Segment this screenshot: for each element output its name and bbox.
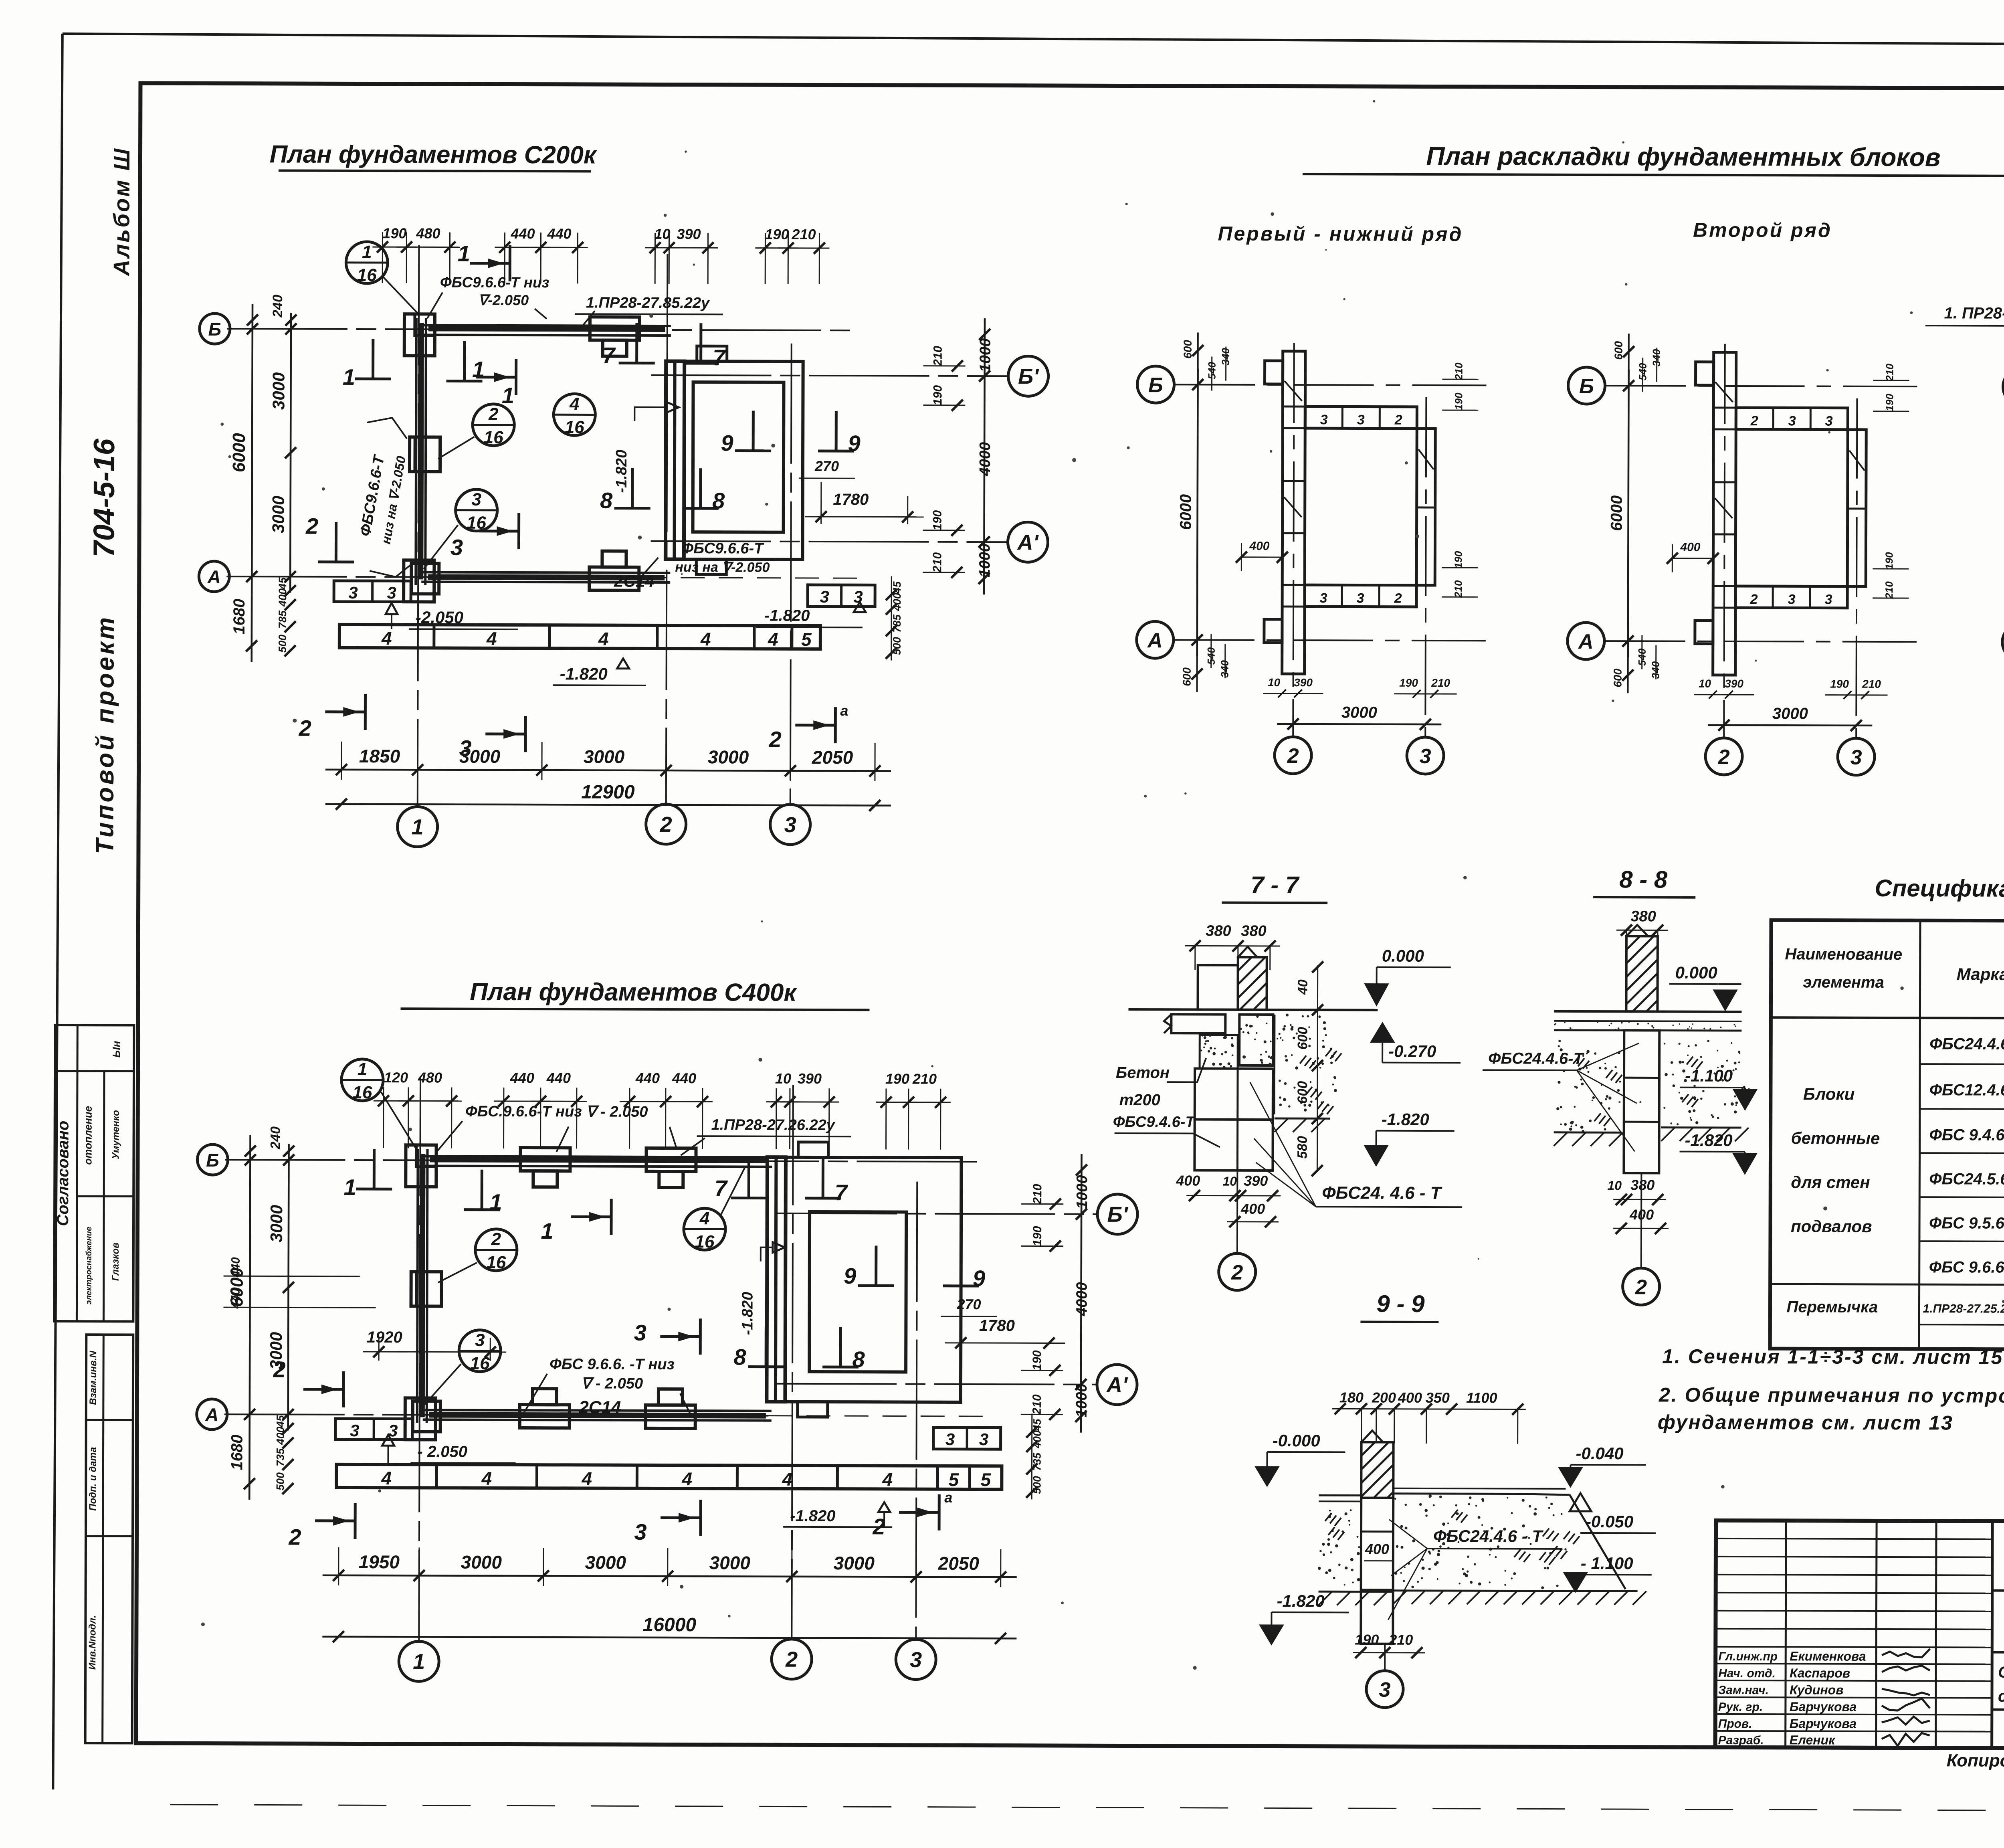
layout2 right small dims	[1873, 364, 1909, 599]
svg-text:600: 600	[1612, 341, 1625, 360]
layout2 dim 3000	[1708, 705, 1872, 731]
svg-text:-1.820: -1.820	[1685, 1131, 1733, 1150]
section 9-9 wall column	[1361, 1498, 1393, 1644]
plan1 bottom section flags	[298, 694, 848, 762]
layout1 dim chain 6000	[1177, 332, 1232, 692]
plan1 section flag 3 mid	[450, 513, 519, 560]
svg-text:3: 3	[1320, 412, 1328, 427]
plan2 level mark -1.820 right	[783, 1502, 892, 1527]
section 7-7 level -0.270	[1372, 1024, 1461, 1063]
plan1 level mark -1.820 bottom	[553, 658, 646, 685]
svg-text:190: 190	[885, 1070, 909, 1087]
svg-text:Бетон: Бетон	[1116, 1064, 1170, 1082]
plan1 wall along axis 1	[409, 318, 440, 594]
svg-text:ФБС24.4.6-Т: ФБС24.4.6-Т	[1488, 1049, 1585, 1068]
svg-text:9: 9	[973, 1266, 985, 1291]
svg-text:1: 1	[344, 1175, 356, 1200]
title block object name	[1998, 1664, 2004, 1706]
section 8-8 brick pier hatched	[1626, 925, 1658, 1011]
plan1 label ФБС9.6.6-Т низ	[427, 274, 549, 319]
svg-text:400: 400	[277, 588, 289, 607]
svg-text:2: 2	[785, 1648, 798, 1672]
title: План фундаментов С400к	[400, 978, 869, 1010]
scan noise	[201, 97, 2004, 1673]
svg-text:5: 5	[949, 1469, 960, 1490]
svg-text:Перемычка: Перемычка	[1786, 1298, 1878, 1316]
plan1 dimension row top	[372, 225, 829, 284]
plan2 axis line Б	[225, 1160, 981, 1162]
svg-text:Блоки: Блоки	[1803, 1084, 1855, 1103]
svg-text:16: 16	[565, 417, 585, 437]
section 9-9 title	[1360, 1290, 1438, 1322]
plan2 section flags 8	[733, 1326, 865, 1372]
svg-text:Гл.инж.пр: Гл.инж.пр	[1718, 1650, 1778, 1663]
svg-text:1: 1	[458, 241, 470, 266]
svg-text:2: 2	[1718, 746, 1730, 769]
plan2 axis circle 3	[896, 1640, 936, 1680]
section 9-9 level -1.820	[1261, 1591, 1349, 1644]
section 9-9 bottom dims	[1353, 1631, 1425, 1658]
plan2 footing block strip	[336, 1464, 1002, 1490]
svg-text:3: 3	[634, 1519, 646, 1545]
plan1 blocks 3-3 right	[808, 585, 875, 607]
plan1 axis circle Б-prime	[1008, 356, 1048, 396]
layout1 corner blocks	[1264, 361, 1283, 643]
svg-text:ФБС9.6.6-Т низ: ФБС9.6.6-Т низ	[440, 274, 549, 291]
svg-text:3: 3	[1420, 745, 1431, 768]
svg-text:1100: 1100	[1466, 1389, 1497, 1406]
svg-text:ФБС 9.5.6-Т: ФБС 9.5.6-Т	[1929, 1214, 2004, 1232]
label ФБС9.4.6-Т near section 7-7	[1113, 1114, 1220, 1147]
svg-text:-1.820: -1.820	[560, 664, 608, 683]
svg-text:12900: 12900	[581, 781, 635, 803]
svg-text:Екименкова: Екименкова	[1790, 1649, 1866, 1663]
svg-text:190: 190	[931, 385, 944, 405]
svg-text:3: 3	[979, 1430, 988, 1449]
layout1 block row bottom	[1305, 585, 1416, 607]
svg-text:210: 210	[1883, 581, 1895, 599]
svg-text:3: 3	[820, 587, 829, 606]
svg-text:3000: 3000	[584, 746, 625, 767]
svg-text:440: 440	[229, 1288, 242, 1309]
layout2 block row top	[1736, 408, 1848, 430]
svg-text:ФБС12.4.6-Т: ФБС12.4.6-Т	[1929, 1081, 2004, 1099]
svg-text:3: 3	[1379, 1678, 1390, 1702]
svg-text:2050: 2050	[938, 1553, 980, 1574]
svg-text:Каспаров: Каспаров	[1790, 1666, 1850, 1680]
layout1 dims bottom small	[1263, 676, 1457, 698]
plan1 level mark -1.820 right	[756, 602, 866, 628]
svg-text:3000: 3000	[1341, 704, 1377, 721]
svg-text:Наименование: Наименование	[1785, 945, 1902, 963]
section 7-7 label ФБС24.4.6-Т	[1250, 1082, 1463, 1207]
layout2 axis circle 2	[1705, 738, 1742, 775]
section 9-9 level -0.000	[1256, 1431, 1345, 1486]
svg-text:3: 3	[784, 813, 796, 837]
svg-text:7 - 7: 7 - 7	[1250, 871, 1300, 898]
svg-text:210: 210	[1388, 1632, 1413, 1648]
layout2 dims bottom small	[1694, 677, 1887, 699]
svg-text:16: 16	[486, 1253, 506, 1272]
svg-text:Ын: Ын	[110, 1041, 122, 1057]
svg-text:4: 4	[569, 394, 580, 414]
svg-text:240: 240	[270, 295, 285, 318]
svg-text:отопление: отопление	[82, 1106, 94, 1165]
svg-text:3: 3	[350, 1421, 359, 1440]
svg-text:6000: 6000	[1177, 494, 1195, 530]
plan2 axis line 2 vertical	[792, 1085, 793, 1640]
svg-text:Марка: Марка	[1957, 964, 2004, 983]
plan2 section flag 2 left top	[273, 1357, 343, 1407]
svg-text:390: 390	[1725, 677, 1743, 690]
plan1 axis circle 1	[397, 807, 437, 847]
svg-text:190: 190	[1452, 551, 1464, 568]
svg-text:40: 40	[1295, 979, 1311, 995]
plan1 dimension chain left 3000/3000	[269, 295, 297, 657]
section 7-7 concrete pocket speckled	[1200, 1035, 1238, 1069]
plan2 blocks 3-3 left	[335, 1419, 412, 1440]
svg-text:ФБС 9.4.6-Т: ФБС 9.4.6-Т	[1929, 1126, 2004, 1144]
svg-text:440: 440	[635, 1070, 660, 1086]
plan2 axis line А-prime	[776, 1384, 1098, 1385]
svg-text:16: 16	[352, 1083, 372, 1102]
plan2 wall along axis Б	[406, 1145, 772, 1187]
plan2 keyplan circle 4/16	[684, 1166, 746, 1252]
svg-text:Рук. гр.: Рук. гр.	[1718, 1700, 1763, 1714]
svg-text:190: 190	[1883, 552, 1895, 570]
svg-text:600: 600	[1295, 1027, 1310, 1050]
plan2 axis circle А	[197, 1399, 227, 1429]
svg-text:1780: 1780	[833, 491, 869, 508]
svg-text:4: 4	[699, 1209, 710, 1228]
layout3 axis circle А	[2002, 624, 2004, 661]
svg-text:Б: Б	[1148, 374, 1163, 397]
svg-text:2050: 2050	[812, 747, 853, 768]
svg-text:Б': Б'	[1018, 364, 1039, 388]
svg-text:3000: 3000	[709, 1552, 751, 1573]
svg-text:2: 2	[273, 1357, 285, 1382]
svg-text:270: 270	[814, 458, 839, 474]
svg-text:390: 390	[798, 1070, 822, 1087]
plan1 axis circle Б	[200, 313, 230, 344]
margin caption: 704-5-16	[87, 438, 121, 557]
plan1 axis line 2 vertical	[666, 254, 668, 805]
svg-text:7: 7	[602, 343, 616, 368]
svg-text:ФБС24. 4.6 - Т: ФБС24. 4.6 - Т	[1322, 1183, 1442, 1203]
subtitle: Первый-нижний ряд	[1218, 222, 1463, 246]
section 7-7 left vertical dims	[1295, 961, 1323, 1176]
svg-text:16: 16	[357, 265, 377, 285]
plan2 overall dimension	[322, 1613, 1016, 1644]
svg-text:1: 1	[412, 815, 424, 839]
layout2 dim chain 6000	[1608, 334, 1663, 693]
section 8-8 title	[1593, 866, 1695, 898]
svg-text:3: 3	[1357, 412, 1365, 428]
plan2 wall along axis 1	[411, 1149, 442, 1431]
layout2 axis circle Б	[1568, 367, 1605, 404]
section 8-8 level -1.820	[1679, 1131, 1756, 1173]
margin stamp: Согласовано block	[54, 1025, 134, 1322]
svg-text:2: 2	[1635, 1276, 1647, 1299]
plan2 right dimension chain	[1021, 1154, 1091, 1432]
plan1 axis line А-prime	[650, 541, 1008, 542]
svg-text:Умутенко: Умутенко	[110, 1110, 121, 1159]
svg-text:2: 2	[299, 716, 311, 741]
subtitle: Второй ряд	[1693, 219, 1832, 242]
svg-text:-1.820: -1.820	[739, 1292, 756, 1335]
plan1 keyplan circle 3/16	[424, 489, 497, 569]
svg-text:1000: 1000	[1073, 1383, 1090, 1417]
svg-text:8: 8	[734, 1344, 747, 1369]
svg-text:Кудинов: Кудинов	[1790, 1682, 1844, 1697]
svg-text:1780: 1780	[979, 1317, 1015, 1334]
svg-text:0.000: 0.000	[1675, 963, 1717, 982]
svg-text:8: 8	[712, 488, 725, 513]
svg-text:4: 4	[882, 1469, 893, 1490]
layout1 block row top	[1305, 406, 1417, 429]
svg-text:Согласовано: Согласовано	[54, 1121, 72, 1226]
svg-text:со стенами из кирпича: со стенами из кирпича	[1998, 1688, 2004, 1706]
svg-text:3: 3	[1825, 592, 1832, 607]
svg-text:2С14: 2С14	[614, 572, 655, 590]
svg-text:440: 440	[510, 1070, 534, 1086]
svg-text:3: 3	[450, 535, 463, 560]
svg-text:440: 440	[229, 1257, 242, 1278]
svg-text:7: 7	[715, 1175, 728, 1201]
svg-text:4: 4	[782, 1469, 793, 1490]
section 8-8 label ФБС24.4.6-Т	[1483, 1043, 1639, 1151]
svg-text:2: 2	[660, 813, 672, 837]
section 9-9 dim 400	[1364, 1541, 1393, 1561]
section 7-7 level -1.820	[1365, 1110, 1454, 1165]
svg-text:390: 390	[1294, 676, 1313, 689]
section 9-9 top dims	[1332, 1389, 1526, 1444]
svg-text:380: 380	[1206, 923, 1231, 940]
svg-text:600: 600	[1612, 668, 1624, 687]
svg-text:т200: т200	[1119, 1091, 1160, 1109]
plan2 axis line Б-prime	[777, 1213, 1098, 1214]
layout1 right small dims	[1442, 362, 1479, 598]
svg-text:Б: Б	[1579, 375, 1594, 398]
layout1 axis line 3	[1425, 397, 1426, 736]
svg-text:А: А	[205, 1404, 218, 1425]
section 9-9 ground mound right	[1319, 1488, 1647, 1606]
plan1 level mark -2.050	[386, 603, 518, 629]
svg-text:210: 210	[1862, 678, 1881, 690]
svg-text:1950: 1950	[359, 1551, 400, 1572]
svg-text:210: 210	[791, 226, 816, 243]
plan2 section flags 1	[343, 1149, 611, 1244]
svg-text:3: 3	[634, 1320, 646, 1345]
svg-text:Барчукова: Барчукова	[1790, 1699, 1857, 1714]
svg-text:2: 2	[769, 727, 782, 752]
plan2 dimension chain left 3000/3000	[266, 1126, 294, 1494]
plan1 dims 270 and 1780	[799, 458, 924, 524]
svg-text:440: 440	[510, 225, 535, 242]
svg-text:-1.820: -1.820	[1382, 1110, 1429, 1129]
section 8-8 top dim 380	[1616, 908, 1668, 987]
svg-text:-0.050: -0.050	[1586, 1512, 1633, 1531]
layout2 axis line 2	[1724, 344, 1725, 737]
svg-text:Б: Б	[208, 319, 222, 340]
svg-text:400: 400	[275, 1427, 287, 1445]
plan2 axis circle 2	[772, 1639, 812, 1679]
section 7-7 ground speckle right	[1275, 1013, 1342, 1132]
svg-text:2: 2	[1750, 592, 1758, 607]
svg-text:200: 200	[1372, 1389, 1396, 1406]
svg-text:Типовой проект: Типовой проект	[91, 615, 119, 854]
plan2 label 1.ПР28-27.26.22у	[681, 1116, 851, 1156]
svg-text:-1.820: -1.820	[613, 450, 630, 493]
plan1 axis circle 3	[770, 805, 810, 845]
svg-text:1: 1	[541, 1218, 553, 1243]
svg-text:10: 10	[1222, 1174, 1237, 1189]
svg-text:400: 400	[1398, 1389, 1422, 1406]
plan1 right small dims stack	[886, 576, 903, 660]
svg-text:270: 270	[956, 1296, 981, 1312]
svg-text:580: 580	[1295, 1136, 1310, 1159]
svg-text:3: 3	[1825, 414, 1833, 429]
svg-text:1: 1	[362, 242, 372, 262]
svg-text:210: 210	[1452, 580, 1464, 598]
svg-text:3000: 3000	[834, 1553, 875, 1573]
svg-text:3000: 3000	[267, 1205, 286, 1243]
svg-text:3000: 3000	[708, 746, 749, 767]
svg-text:- 2.050: - 2.050	[417, 1443, 467, 1460]
layout2 block row bottom	[1735, 586, 1847, 608]
plan1 dimension chain bottom	[325, 742, 891, 781]
svg-text:600: 600	[1182, 340, 1194, 359]
svg-text:3: 3	[387, 583, 396, 602]
plan1 rotated level -1.820 at pit	[613, 402, 679, 493]
svg-text:План фундаментов С200к: План фундаментов С200к	[270, 140, 597, 169]
section 7-7 level 0.000	[1366, 946, 1450, 1005]
svg-text:2: 2	[305, 514, 318, 539]
svg-text:380: 380	[1630, 908, 1656, 925]
svg-text:1680: 1680	[228, 1435, 246, 1470]
svg-text:2: 2	[1394, 412, 1402, 428]
svg-text:А: А	[1578, 630, 1594, 653]
svg-text:Нач. отд.: Нач. отд.	[1718, 1667, 1776, 1680]
svg-text:2. Общие примечания по устро: 2. Общие примечания по устройству	[1659, 1383, 2004, 1407]
specification table header text	[1785, 941, 2004, 1024]
layout2 axis circle А	[1568, 623, 1604, 659]
plan2 keyplan circle 1/16	[341, 1059, 419, 1152]
svg-text:Инв.Nподл.: Инв.Nподл.	[87, 1615, 98, 1670]
svg-text:9: 9	[848, 431, 860, 456]
svg-text:Копировал: Мишина: Копировал: Мишина	[1947, 1751, 2004, 1771]
layout1 block column axis 3	[1416, 429, 1435, 585]
svg-text:3: 3	[471, 490, 481, 510]
plan2 axis circle Б	[197, 1144, 228, 1175]
svg-text:А': А'	[1016, 530, 1039, 554]
plan2 left small dims 440/440	[223, 1257, 376, 1309]
specification table rows text	[1786, 1035, 2004, 1348]
svg-text:210: 210	[1884, 364, 1896, 382]
section 9-9 floor left	[1318, 1495, 1361, 1585]
plan1 section flags 7	[602, 323, 726, 370]
svg-text:380: 380	[1241, 923, 1267, 940]
section 8-8 axis circle 2	[1623, 1173, 1660, 1305]
svg-text:400: 400	[1240, 1201, 1265, 1217]
layout2 block column axis 2	[1713, 352, 1736, 675]
plan1 wall along axis Б	[404, 314, 671, 356]
plan1 dimension chain left 6000	[229, 304, 258, 662]
svg-text:10: 10	[775, 1070, 791, 1087]
layout1 axis line А	[1174, 640, 1486, 641]
svg-text:а: а	[944, 1489, 952, 1506]
plan1 keyplan circle 1/16	[346, 242, 419, 314]
svg-text:4: 4	[381, 1468, 392, 1488]
svg-text:1: 1	[358, 1059, 368, 1079]
svg-text:16000: 16000	[643, 1614, 697, 1636]
svg-text:2: 2	[1750, 413, 1758, 429]
plan2 section flags 9	[844, 1245, 985, 1291]
section 8-8 ground speckle left	[1554, 1040, 1623, 1146]
plan2 blocks 3-3 right	[933, 1427, 1001, 1449]
plan2 axis line А	[224, 1414, 987, 1416]
plan1 keyplan circle 4/16	[554, 394, 595, 437]
svg-text:7: 7	[835, 1180, 848, 1205]
svg-text:3: 3	[910, 1648, 922, 1672]
svg-text:3000: 3000	[1772, 705, 1808, 722]
plan2 dimension row top	[374, 1069, 951, 1150]
svg-text:440: 440	[672, 1070, 696, 1086]
layout1 axis circle Б	[1137, 366, 1174, 403]
svg-text:-0.270: -0.270	[1388, 1042, 1436, 1061]
svg-text:45: 45	[275, 1415, 287, 1427]
plan1 keyplan circle 2/16	[438, 404, 514, 459]
svg-text:190: 190	[1830, 678, 1849, 690]
svg-text:9: 9	[844, 1263, 856, 1288]
svg-text:180: 180	[1339, 1389, 1364, 1405]
svg-text:2: 2	[491, 1229, 501, 1249]
svg-text:4: 4	[682, 1468, 693, 1489]
footer notes	[1947, 1751, 2004, 1772]
svg-text:Склады на 200,400,740 баллонов: Склады на 200,400,740 баллонов	[1998, 1664, 2004, 1682]
plan1 axis line Б	[227, 329, 856, 330]
svg-text:ФБС24.5.6-Т: ФБС24.5.6-Т	[1929, 1170, 2004, 1188]
svg-text:7: 7	[713, 345, 726, 370]
svg-text:∇ - 2.050: ∇ - 2.050	[581, 1375, 643, 1392]
svg-text:8 - 8: 8 - 8	[1619, 866, 1668, 893]
svg-text:5: 5	[981, 1469, 992, 1490]
svg-text:16: 16	[484, 428, 504, 447]
svg-text:А': А'	[1106, 1373, 1128, 1397]
svg-text:380: 380	[1630, 1177, 1655, 1193]
plan1 label 1.ПР28-27.85.22у	[575, 294, 723, 328]
svg-text:3000: 3000	[269, 496, 288, 534]
section 7-7 floor line	[1128, 1009, 1378, 1010]
layout2 dim 400	[1667, 541, 1719, 572]
svg-text:600: 600	[1295, 1081, 1310, 1104]
labels Бетон М200 near section 7-7	[1116, 1058, 1206, 1109]
plan2 axis circle А-prime	[1097, 1365, 1137, 1405]
svg-text:480: 480	[418, 1069, 442, 1086]
svg-text:1.ПР28-27.25.22у: 1.ПР28-27.25.22у	[1923, 1302, 2004, 1316]
plan2 dims 270 and 1780	[941, 1296, 1065, 1349]
svg-text:Альбом Ш: Альбом Ш	[109, 147, 134, 277]
svg-text:9: 9	[721, 430, 733, 455]
svg-text:Б: Б	[206, 1150, 219, 1171]
plan2 section flag 3 mid	[634, 1318, 701, 1355]
svg-text:400: 400	[1249, 540, 1269, 553]
layout1 dim 3000	[1277, 704, 1441, 730]
section 7-7 bottom dims	[1176, 1172, 1281, 1227]
svg-text:3000: 3000	[269, 372, 288, 410]
section 7-7 title	[1222, 871, 1327, 903]
plan1 axis circle А	[199, 561, 229, 592]
